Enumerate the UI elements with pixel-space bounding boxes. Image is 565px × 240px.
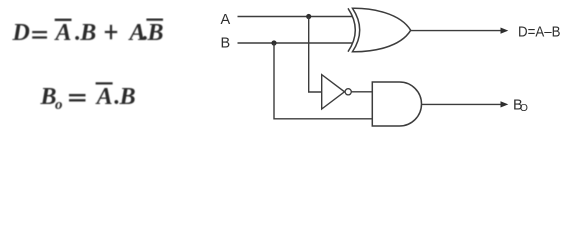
wire inverter to AND gate bbox=[351, 91, 372, 93]
svg-text:B: B bbox=[79, 20, 96, 46]
equation D = A-bar . B + A . B-bar bbox=[12, 20, 164, 46]
wire from B junction down and right to AND gate bbox=[274, 43, 372, 119]
wire XOR output bbox=[411, 30, 502, 32]
svg-text:D: D bbox=[12, 20, 30, 46]
svg-text:A: A bbox=[221, 12, 231, 28]
svg-text:A: A bbox=[54, 20, 72, 46]
wire from A junction down to inverter bbox=[309, 17, 322, 93]
inverter (NOT gate) triangle bbox=[322, 75, 345, 109]
svg-text:B: B bbox=[40, 84, 57, 110]
node junction on B bbox=[271, 40, 276, 45]
arrowhead D output bbox=[501, 28, 509, 34]
wire A horizontal bbox=[238, 16, 354, 18]
svg-text:o: o bbox=[55, 97, 63, 113]
svg-text:B: B bbox=[221, 35, 231, 51]
wire B horizontal bbox=[238, 42, 354, 44]
XOR gate input back arc bbox=[348, 8, 355, 51]
XOR gate body bbox=[353, 8, 411, 51]
AND gate bbox=[372, 82, 421, 126]
equation Bo = A-bar . B bbox=[40, 83, 136, 113]
svg-text:B: B bbox=[119, 84, 136, 110]
inverter bubble bbox=[345, 89, 351, 95]
arrowhead Bo output bbox=[501, 101, 509, 107]
svg-text:D=A–B: D=A–B bbox=[518, 24, 561, 41]
wire AND output bbox=[422, 103, 502, 105]
svg-text:B: B bbox=[147, 20, 164, 46]
svg-text:A: A bbox=[95, 84, 113, 110]
svg-text:O: O bbox=[520, 102, 528, 114]
node junction on A bbox=[306, 14, 311, 19]
